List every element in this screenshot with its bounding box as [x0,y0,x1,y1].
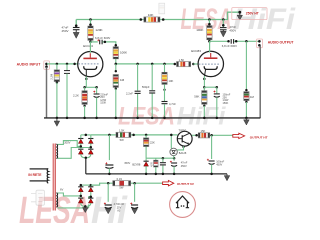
node cathode2 [203,78,206,81]
node R2 left [140,18,143,21]
wire C9 to ground bus [216,97,218,118]
capacitor C2 47nF 450V [220,28,227,32]
node bridge1 minus [85,157,88,160]
capacitor C8 4,7nF [162,102,168,104]
junction dot B+ rail / R3 [208,18,211,21]
svg-text:1M: 1M [250,95,255,99]
svg-text:LESA: LESA [118,103,175,131]
wire output ground (grey) down to bus [259,46,261,118]
tube V1 grid (dashed) [78,63,99,65]
junction dot grid2/R8 [163,63,166,66]
svg-text:6V: 6V [60,188,63,192]
junction dot bridge1 plus [85,134,88,137]
wire to R5 [84,87,86,91]
svg-text:4,7K: 4,7K [151,162,153,167]
node R10 bottom [203,105,205,107]
diode D1 (bridge1) [78,139,83,144]
svg-text:1,5K: 1,5K [119,129,125,133]
node C10 left [227,40,230,43]
resistor R10 56K (cathode tube2) [202,91,207,105]
svg-text:22K: 22K [150,141,155,145]
wire bridge1 minus to 0V rail (black) [85,158,87,174]
capacitor C13 47mF 450V (electrolytic) [170,158,177,174]
resistor R8 10K [162,72,167,84]
node R9 left [174,63,177,66]
wire C11 to 0V rail [108,168,110,174]
ground symbol below C15 [105,208,111,214]
node plate1 (R1 bottom) [89,40,92,43]
wire C6 to ground bus [137,94,139,118]
junction dot grid1 wire [73,63,76,66]
resistor R1 120K (plate load tube1) [88,26,93,40]
node C1 top [75,24,78,27]
svg-text:OUTPUT 6V: OUTPUT 6V [177,182,194,186]
wire cathode2 R10/C9 top join [204,86,217,88]
zener DZ1 BZY88 [144,158,149,174]
capacitor C11 100mF 350V (electrolytic filter) [105,162,113,168]
junction dot base line / C13 [173,157,176,160]
ghost mains plug (faded) [31,190,45,205]
svg-text:2,2nF: 2,2nF [126,92,133,96]
diode D9 (bridge2) [88,198,93,203]
ground bus (preamp) [44,117,260,119]
svg-text:450V: 450V [181,164,187,168]
wire 6V DC line [91,183,162,185]
wire C3 to ground bus [66,74,68,118]
junction dots on ground bus [56,117,248,120]
ground symbol right on bus [244,118,250,125]
diode D8 (bridge2) [78,198,83,203]
node R9 right / grid2 entry [192,63,195,66]
junction dot C11 tap [108,134,111,137]
transformer T1 secondary 6V winding [56,193,57,207]
svg-text:15K: 15K [201,129,206,133]
node bridge1 right AC tap [90,146,93,149]
tube V1 anode (red plate) [83,53,97,58]
junction dot C15 tap [107,182,110,185]
wire grid2 to R8 [164,64,166,73]
node cathode2 join [203,86,206,89]
wire Q1 base to D5 [177,146,183,150]
node R12 left [132,134,135,137]
wire R5 to ground bus [84,106,86,118]
wire bridge2 plus join [81,184,91,186]
wire HT dot to diode D5 [170,135,172,149]
wire input shield (grey) down to bus [46,67,48,118]
LESA logo house [176,196,189,208]
junction dot grid2/R6-R7 [115,63,118,66]
wire to R10 [203,87,205,91]
ground symbol bridge2 minus [83,206,89,212]
svg-text:2,2M: 2,2M [50,74,54,80]
node cathode1 [85,78,88,81]
node bridge2 right AC tap [90,195,93,198]
svg-text:TIP50: TIP50 [179,129,187,133]
node R7 top [115,70,117,72]
diode D2 (bridge1) [88,139,93,144]
wire R9 to tube V2 grid [193,63,198,65]
svg-text:6,8 nF 600V: 6,8 nF 600V [222,44,237,48]
junction dot C14 tap [210,134,213,137]
node R15 left [195,134,198,137]
wire HT regulated line [192,134,233,136]
svg-text:ECC83: ECC83 [191,49,201,53]
svg-text:4,7nF: 4,7nF [169,102,176,106]
value label C15/C16 4.700 mF 25V A3 [114,203,125,212]
svg-text:10K: 10K [169,79,174,83]
junction dot C4 top [95,86,98,89]
node R11 bottom [245,101,247,103]
wire bridge1 column stubs [81,135,91,149]
wire C15 down [107,183,109,202]
wire plate1 to C5 [91,41,98,43]
node bridge1 left AC tap [80,145,83,148]
svg-text:560pF: 560pF [142,85,150,89]
capacitor C10 6,8nF 600V (output coupling) [231,39,233,44]
diode D6 (bridge2) [78,187,83,192]
wire to C9 [216,87,218,93]
wire R7 to ground bus [115,89,117,118]
junction dot bridge2 plus right [90,184,93,187]
svg-text:100K: 100K [196,28,204,32]
capacitor C14 100mF 450V (electrolytic) [207,159,215,174]
value label C13 47mF 450V [181,161,188,168]
wire C8 to ground bus [164,104,166,118]
pin input ground [45,65,48,68]
tube V1 ECC83 envelope [78,52,103,77]
ground symbol left on bus [54,118,60,126]
wire C10 to output terminal [234,40,259,42]
svg-text:450V: 450V [229,29,236,33]
junction dot after C5 [104,41,107,44]
svg-text:250V HT: 250V HT [246,12,259,16]
svg-text:100K: 100K [120,51,127,55]
node R5 bottom [83,105,85,107]
svg-text:200V: 200V [64,141,70,145]
wire bridge1 minus curves [81,154,91,158]
wire R4 to ground bus [56,83,58,118]
wire cathode1 down [85,76,87,87]
capacitor C3 (input) [64,71,70,74]
node R8/C8 junction [163,89,165,91]
svg-text:5W: 5W [119,186,123,190]
wire R10 to ground bus [203,106,205,118]
ghost resistor (faded) above B+ rail [159,3,165,14]
wire C11 down [108,135,110,160]
wire bridge1 plus join [81,134,91,136]
ground symbol below C2 [220,31,226,37]
capacitor C7 560pF [149,91,155,93]
wire rail to R1 [90,20,92,25]
junction dot grid1/C3 [66,63,69,66]
node R2 right [162,18,165,21]
tube V2 grid (dashed) [199,63,220,65]
svg-text:150K: 150K [100,102,106,105]
capacitor C12 (base filter) [160,158,166,174]
wire grid2 to C7 [151,64,153,90]
audio input terminal box [44,61,50,70]
wire C7 to ground bus [151,94,153,118]
wire C4 to ground bus [96,97,98,118]
resistor R12 1,5K 5W (filter series) [116,132,131,137]
wire 6V top lead to bridge2 left tap [58,193,80,196]
diode D5 BA128 (in circle) [170,148,177,158]
svg-text:AUDIO INPUT: AUDIO INPUT [17,63,42,67]
diode D4 (bridge1) [88,149,93,154]
junction dot R13 tap [145,134,148,137]
resistor R14 (small, base divider) [154,158,159,174]
capacitor C6 2,2nF [135,91,141,93]
junction dot C9 top [216,86,219,89]
OUTPUT HT arrow [233,133,245,138]
diode D3 (bridge1) [78,149,83,154]
tube V1 cathode [84,66,97,69]
wire base node line [146,157,174,159]
svg-text:120K: 120K [95,28,103,32]
ground symbol at 0V rail end [224,174,230,181]
wire grid1 down to C3 [66,64,68,70]
svg-text:150K: 150K [223,102,229,105]
node 250V HT terminal dot [238,11,241,14]
wire rail to R3 [208,20,210,25]
ground symbol below C16 [132,208,138,214]
wire C16 down [134,183,136,202]
wire cathode2 down [203,76,205,87]
tube V2 cathode lead [205,69,206,76]
node C10 right [235,40,238,43]
wire grid2 net (horizontal) [116,63,175,65]
junction dot output/R11 [245,40,248,43]
wire B+ to C1 [75,20,77,27]
pin output ground [258,44,261,47]
svg-text:1,5K: 1,5K [179,58,185,62]
node R4 bottom [56,81,58,83]
node C2 top [222,24,225,27]
svg-text:5W: 5W [120,138,124,142]
svg-text:IN RETE: IN RETE [28,173,42,177]
junction dot bridge2 plus left [80,184,83,187]
node R3 top [208,23,211,26]
junction dot grid2/C7 [151,63,154,66]
capacitor C4 220mF 25V (electrolytic, cathode bypass) [93,91,99,98]
tube V2 ECC83 envelope [198,51,223,76]
wire R11 to ground bus [245,102,247,118]
capacitor C9 100mF 25V (electrolytic, cathode bypass tube2) [214,91,220,98]
wire 6V bottom lead to bridge2 right tap [58,197,91,208]
transformer T1 core [53,144,56,211]
wire plate1 node to tube V1 anode [89,42,91,53]
junction dot R5 top [83,86,86,89]
capacitor C16 4.700mF 25V (electrolytic) [130,203,138,209]
svg-text:2,2K: 2,2K [73,94,79,98]
tube V2 cathode [204,66,217,69]
wire plate2 to C10 [209,40,228,42]
junction dot grid1/R4 [56,63,59,66]
wire grid2 to R7 [115,64,117,71]
wire C5 to R6 [103,42,116,45]
svg-text:BZY88: BZY88 [132,163,140,167]
node bridge2 minus [84,205,87,208]
resistor R3 100K (plate load tube2) [207,26,212,40]
resistor R5 2,2K (cathode tube1) [82,91,87,105]
LESA logo circle [170,192,196,218]
svg-text:AUDIO OUTPUT: AUDIO OUTPUT [268,40,295,44]
250V HT terminal box [232,8,267,20]
svg-text:1M: 1M [120,78,125,82]
wire R8 to C8 [164,84,166,101]
value label C14 100mF 450V [216,160,224,167]
junction dots on 0V rail [108,173,213,176]
resistor R6 100K (series grid tube2) [113,47,118,59]
resistor R16 0,33 5W (heater filter) [113,181,131,186]
wire 200V bottom lead to bridge1 right tap [58,148,90,159]
svg-text:BA128: BA128 [179,152,187,155]
junction dot C16 tap [133,182,136,185]
wire cathode1 R5/C4 top join [85,86,97,88]
wire R6 bottom to grid2 net [115,59,117,64]
svg-text:56K: 56K [194,95,199,99]
node R6 top [115,44,118,47]
wire rail to C2 [222,20,224,28]
resistor R9 1,5K (grid stopper tube2) [177,62,191,67]
wire to C4 [96,87,98,93]
resistor R15 15K [198,133,209,138]
svg-text:450V: 450V [62,29,69,33]
capacitor C5 6,8nF 600V (coupling) [100,40,102,45]
svg-text:0,33: 0,33 [117,177,123,181]
wire C14 down [211,135,213,159]
svg-text:Hi: Hi [91,190,128,223]
transformer T1 secondary 200V winding [56,144,57,158]
wire bridge2 column stubs [81,185,91,198]
svg-text:6,8 nF 600V: 6,8 nF 600V [95,36,110,40]
diode D7 (bridge2) [88,187,93,192]
resistor R2 10K (B+ series) [144,17,160,22]
svg-text:OUTPUT HT: OUTPUT HT [250,135,268,139]
250V HT input arrow [239,13,241,15]
transformer T1 primary winding [47,169,48,183]
node plate2 (R3 bottom) [208,40,211,43]
wire 200V top lead to bridge1 left tap [58,141,80,147]
tube V2 anode (red plate) [204,53,218,58]
capacitor C15 4.700mF 25V (electrolytic) [104,203,112,209]
resistor R11 1M (output load) [244,92,249,101]
node Q1 base [182,146,184,148]
wire grid1 down to R4 [56,64,58,70]
svg-text:ECC83: ECC83 [83,44,93,48]
svg-text:350V: 350V [124,161,130,165]
wire HT raw line [91,134,178,136]
resistor R4 2,2M (grid leak) [54,70,59,82]
ground symbol below C1 [73,32,79,38]
pin output signal [258,40,261,43]
junction dot grid2/C6 [136,63,139,66]
node R7 bottom [115,88,117,90]
svg-text:10K: 10K [148,13,154,17]
pin input signal [45,63,48,66]
junction dot D5 tap [170,134,173,137]
node bridge2 left AC tap [80,195,83,198]
junction dot base line / C12 [162,157,165,160]
wire output to R11 [245,41,247,90]
svg-text:HiFi: HiFi [177,103,227,131]
junction dot B+ rail / C2 [222,18,225,21]
wire input to grid1 [47,63,78,65]
0V rail (black) [86,173,227,175]
junction dot B+ rail / R1 [89,18,92,21]
resistor R7 1M (grid shunt) [113,75,118,88]
node R11 top [245,89,247,91]
wire R13 to base node line [145,135,147,158]
node R1 top [89,23,92,26]
value label C9 [223,94,231,105]
mains input leads (grey) [30,169,48,181]
value label C4 [100,94,108,105]
svg-text:450V: 450V [216,163,222,167]
audio output terminal box [257,39,263,48]
transistor Q1 TIP50 (series regulator) [177,131,192,146]
polarity mark C5 [97,39,99,41]
tube V1 cathode lead [85,69,87,76]
resistor R13 22K (to base node) [143,138,148,147]
wire B+ rail [76,12,240,19]
wire plate2 node to tube V2 anode [209,41,211,52]
capacitor C1 47nF 450V [73,28,80,33]
wire bridge2 minus curves [81,203,91,206]
wire grid2 to C6 [137,64,139,91]
OUTPUT 6V arrow [163,181,174,186]
